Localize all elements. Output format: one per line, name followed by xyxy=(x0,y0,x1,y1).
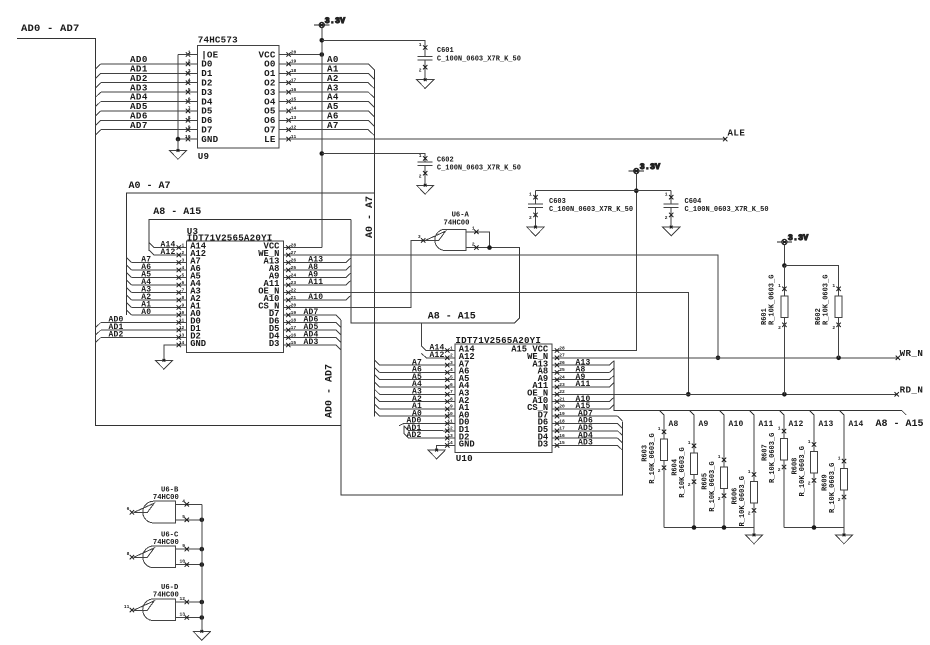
svg-text:3: 3 xyxy=(188,68,191,74)
U6-D output x-mark pin 11 xyxy=(130,608,134,612)
svg-text:A14: A14 xyxy=(849,420,864,429)
svg-text:19: 19 xyxy=(559,411,565,417)
svg-text:R_10K_0603_G: R_10K_0603_G xyxy=(769,433,777,483)
svg-text:74HC573: 74HC573 xyxy=(198,35,238,46)
svg-text:GND: GND xyxy=(201,134,218,145)
wire ALE from U9 LE pin11 to flag xyxy=(279,138,725,140)
U6-C input stubs pins 9,10 xyxy=(175,548,201,550)
svg-text:D3: D3 xyxy=(269,339,280,349)
svg-text:R_10K_0603_G: R_10K_0603_G xyxy=(829,463,837,513)
wires A0-A7 from U9 O0-O7 to A0-A7 bus with net labels xyxy=(279,63,368,65)
junction U6-A tied inputs xyxy=(487,245,492,250)
svg-text:6: 6 xyxy=(450,382,453,388)
svg-text:U6-A: U6-A xyxy=(452,212,470,220)
svg-text:2: 2 xyxy=(472,241,475,247)
U6-A inversion wedge xyxy=(425,231,446,240)
wires AD0-AD7 from bus to U9 D0-D7 with net labels xyxy=(95,64,100,69)
U6-B output x-mark pin 6 xyxy=(130,510,134,514)
svg-text:A10: A10 xyxy=(308,293,323,302)
junction 3.3V rail / C601 branch xyxy=(320,38,325,43)
capacitor C602 branch wire xyxy=(322,154,425,163)
resistor R609 pull-down 10K xyxy=(842,459,846,463)
svg-text:C_100N_0603_X7R_K_50: C_100N_0603_X7R_K_50 xyxy=(437,165,521,173)
svg-text:2: 2 xyxy=(832,325,835,331)
svg-text:2: 2 xyxy=(182,250,185,256)
resistor R602 xyxy=(836,287,840,291)
svg-text:2: 2 xyxy=(778,467,781,473)
svg-text:14: 14 xyxy=(447,440,453,446)
svg-text:15: 15 xyxy=(559,440,565,446)
IC U10 IDT71V2565A20YI SRAM body xyxy=(455,344,552,453)
bus drop to U10 A14/A12 xyxy=(420,323,422,346)
svg-text:1: 1 xyxy=(748,469,751,475)
svg-text:7: 7 xyxy=(182,287,185,293)
svg-text:2: 2 xyxy=(658,468,661,474)
svg-text:A9: A9 xyxy=(699,420,709,429)
svg-text:A11: A11 xyxy=(576,380,591,389)
bus exit and column wire net A14 xyxy=(839,410,844,415)
wires A7..A0 from A0-A7 bus to U10 with net labels xyxy=(375,360,380,365)
svg-text:1: 1 xyxy=(838,456,841,462)
resistor R607 pull-down 10K xyxy=(782,429,786,433)
svg-text:17: 17 xyxy=(291,325,297,331)
U6-B input stubs pins 4,5 xyxy=(175,503,201,505)
svg-text:2: 2 xyxy=(778,325,781,331)
ground symbol pull-down left group xyxy=(745,534,762,544)
U6-A input pin1 stub xyxy=(466,232,490,248)
svg-text:AD3: AD3 xyxy=(304,338,319,347)
svg-text:4: 4 xyxy=(182,265,185,271)
svg-text:9: 9 xyxy=(450,404,453,410)
svg-text:4: 4 xyxy=(182,498,185,504)
svg-text:U9: U9 xyxy=(198,151,209,162)
svg-text:27: 27 xyxy=(291,250,297,256)
svg-text:3: 3 xyxy=(450,360,453,366)
svg-text:8: 8 xyxy=(182,295,185,301)
svg-text:27: 27 xyxy=(559,353,565,359)
svg-text:11: 11 xyxy=(447,418,453,424)
svg-text:21: 21 xyxy=(559,396,565,402)
resistor R603 pull-down 10K xyxy=(662,430,666,434)
svg-text:26: 26 xyxy=(291,257,297,263)
U6-C output x-mark pin 8 xyxy=(130,555,134,559)
svg-text:ALE: ALE xyxy=(728,128,746,139)
svg-text:2: 2 xyxy=(808,481,811,487)
svg-text:C603: C603 xyxy=(549,198,566,206)
svg-text:1: 1 xyxy=(450,345,453,351)
svg-text:AD3: AD3 xyxy=(578,439,593,448)
junction R601 on RD_N xyxy=(782,392,787,397)
3.3V rail to C603 and C604 xyxy=(536,190,672,192)
bus A0-A7: label underline run, right vertical, left vertical drop xyxy=(127,193,375,315)
ground symbol under U3 xyxy=(155,359,172,369)
svg-text:18: 18 xyxy=(559,418,565,424)
svg-text:12: 12 xyxy=(179,596,185,602)
U9 right pin stubs with x-marks and pin numbers 20-11 xyxy=(286,52,290,56)
wire U3 CS_N pin20 up to U6-A output xyxy=(296,240,427,307)
nand gate U6-C 74HC00 (mirrored, output left, inputs grounded) xyxy=(143,546,176,568)
junction U6-C pin10 xyxy=(200,562,205,567)
wire U9 !OE pin1 to GND tie xyxy=(178,54,197,56)
wire U3 GND to ground xyxy=(164,345,174,360)
svg-text:24: 24 xyxy=(559,375,565,381)
svg-text:A7: A7 xyxy=(327,120,339,131)
junction rail A13 xyxy=(812,525,817,530)
ground symbol under C603 xyxy=(527,226,544,236)
svg-text:25: 25 xyxy=(291,265,297,271)
svg-text:AD0 - AD7: AD0 - AD7 xyxy=(21,23,80,35)
capacitor C601 xyxy=(423,45,427,49)
junction WE_N riser on WR_N line xyxy=(716,356,721,361)
svg-text:C604: C604 xyxy=(685,198,702,206)
svg-text:R_10K_0603_G: R_10K_0603_G xyxy=(679,447,687,497)
junction 3.3V right rail xyxy=(782,263,787,268)
wire tied-input chain to ground xyxy=(201,504,203,631)
svg-text:12: 12 xyxy=(179,325,185,331)
svg-text:13: 13 xyxy=(447,433,453,439)
svg-text:R_10K_0603_G: R_10K_0603_G xyxy=(739,476,747,526)
wire !OE-GND tie vertical, junction, ground stem xyxy=(177,55,179,140)
pull-down field right ground rail xyxy=(784,527,844,529)
svg-text:14: 14 xyxy=(179,340,185,346)
svg-text:10: 10 xyxy=(179,310,185,316)
svg-text:U10: U10 xyxy=(456,453,473,464)
bus exit and column wire net A9 xyxy=(689,410,694,415)
svg-text:2: 2 xyxy=(718,496,721,502)
svg-text:28: 28 xyxy=(291,242,297,248)
svg-text:R_10K_0603_G: R_10K_0603_G xyxy=(823,275,831,325)
svg-text:74HC00: 74HC00 xyxy=(153,494,179,502)
svg-text:1: 1 xyxy=(182,242,185,248)
svg-text:A12: A12 xyxy=(789,420,804,429)
bus exit and column wire net A12 xyxy=(779,410,784,415)
bus exit and column wire net A8 xyxy=(659,410,664,415)
capacitor C603 xyxy=(535,191,537,204)
wire U10 A10 to bus with net label xyxy=(565,401,609,403)
svg-text:10: 10 xyxy=(447,411,453,417)
junction OE_N riser on RD_N line xyxy=(686,392,691,397)
resistor R604 pull-down 10K xyxy=(692,444,696,448)
capacitor C601 branch wire xyxy=(322,40,425,56)
capacitor C602 xyxy=(423,156,427,160)
svg-text:4: 4 xyxy=(188,78,191,84)
svg-text:GND: GND xyxy=(190,339,206,349)
svg-text:13: 13 xyxy=(179,332,185,338)
junction rail A9 xyxy=(692,525,697,530)
svg-text:A10: A10 xyxy=(729,420,744,429)
U3 right pin stubs x-marks pin numbers 28-15 xyxy=(284,247,297,249)
bus A8-A15 end marker xyxy=(902,410,907,415)
wire A14 to U3 pin1 with net label xyxy=(154,247,186,249)
svg-text:A8 - A15: A8 - A15 xyxy=(876,419,924,430)
nand gate U6-D 74HC00 (mirrored, output left, inputs grounded) xyxy=(143,599,176,621)
svg-text:1: 1 xyxy=(718,454,721,460)
svg-text:20: 20 xyxy=(291,302,297,308)
resistor R606 pull-down 10K xyxy=(752,472,756,476)
svg-text:20: 20 xyxy=(559,404,565,410)
svg-text:13: 13 xyxy=(179,612,185,618)
power symbol 3.3V right xyxy=(777,234,809,245)
svg-text:6: 6 xyxy=(188,96,191,102)
svg-text:18: 18 xyxy=(291,317,297,323)
wire A12 to U3 pin2 with net label xyxy=(154,254,186,256)
svg-text:16: 16 xyxy=(291,332,297,338)
svg-text:3.3V: 3.3V xyxy=(325,17,345,26)
svg-text:9: 9 xyxy=(182,543,185,549)
U6-A input pin2 stub to A15 riser xyxy=(466,247,520,249)
svg-text:2: 2 xyxy=(419,174,422,180)
svg-text:2: 2 xyxy=(838,497,841,503)
svg-text:7: 7 xyxy=(450,389,453,395)
wires AD7..AD3 from U10 D7-D3 to AD bus with net labels xyxy=(565,415,618,417)
svg-text:8: 8 xyxy=(450,396,453,402)
ground symbol under C604 xyxy=(663,226,680,236)
svg-text:9: 9 xyxy=(182,302,185,308)
svg-text:R_10K_0603_G: R_10K_0603_G xyxy=(649,433,657,483)
U3 left pin stubs x-marks pin numbers 1-14 xyxy=(174,247,186,249)
U6-A output pin3 x-mark and number xyxy=(421,238,425,242)
wire U3 A10 to A8-A15 bus with net label xyxy=(296,299,346,301)
svg-text:A0 - A7: A0 - A7 xyxy=(129,181,171,192)
nand gate U6-B 74HC00 (mirrored, output left, inputs grounded) xyxy=(143,501,176,523)
svg-text:2: 2 xyxy=(188,59,191,65)
wires AD0..AD2 from AD bus to U3 D0-D2 with net labels xyxy=(95,323,100,328)
svg-text:19: 19 xyxy=(291,310,297,316)
bus exit and column wire net A10 xyxy=(719,410,724,415)
nand gate U6-A 74HC00 (mirrored, output left) xyxy=(435,229,466,250)
svg-text:5: 5 xyxy=(182,514,185,520)
svg-text:12: 12 xyxy=(447,426,453,432)
wire U3 OE_N pin22 long run to RD_N line xyxy=(296,293,688,395)
svg-text:23: 23 xyxy=(559,382,565,388)
IC U3 IDT71V2565A20YI SRAM body xyxy=(187,241,284,352)
svg-text:1: 1 xyxy=(832,283,835,289)
junction U6-D pin13 xyxy=(200,615,205,620)
wire U10 GND to ground xyxy=(437,445,443,450)
svg-text:1: 1 xyxy=(472,226,475,232)
svg-text:25: 25 xyxy=(559,367,565,373)
junction U6-D pin12 xyxy=(200,600,205,605)
svg-text:D3: D3 xyxy=(538,440,549,450)
svg-text:1: 1 xyxy=(665,192,668,198)
svg-text:11: 11 xyxy=(179,317,185,323)
ground symbol under U6 gate chain xyxy=(193,630,210,640)
capacitor C604 xyxy=(670,191,672,204)
svg-text:A8 - A15: A8 - A15 xyxy=(428,312,476,323)
svg-text:A0: A0 xyxy=(141,308,151,317)
svg-text:GND: GND xyxy=(459,440,475,450)
bus exit to U3 A14 xyxy=(149,243,154,248)
bus exit and column wire net A11 xyxy=(749,410,754,415)
junction 3.3V mid rail xyxy=(634,188,639,193)
svg-text:3: 3 xyxy=(418,234,421,240)
svg-text:1: 1 xyxy=(808,439,811,445)
bus A8-A15 upper: horizontal, left vertical to U3 A14/A12, right vertical to lower bus xyxy=(149,219,351,251)
svg-text:5: 5 xyxy=(182,272,185,278)
svg-text:6: 6 xyxy=(182,280,185,286)
junction rail A10 xyxy=(722,525,727,530)
U10 left pin stubs x-marks pin numbers 1-14 xyxy=(443,350,455,352)
svg-text:R_10K_0603_G: R_10K_0603_G xyxy=(709,461,717,511)
svg-text:AD7: AD7 xyxy=(130,120,148,131)
svg-text:2: 2 xyxy=(419,68,422,74)
svg-text:C602: C602 xyxy=(437,156,454,164)
wires U10 A13,A8,A9,A11 to right A8-A15 bus with net labels xyxy=(565,364,609,366)
svg-text:22: 22 xyxy=(291,287,297,293)
ground symbol pull-down right group xyxy=(835,534,852,544)
svg-text:8: 8 xyxy=(127,551,130,557)
ground symbol under C602 xyxy=(417,184,434,194)
svg-text:5: 5 xyxy=(188,87,191,93)
U9 left pin stubs with x-marks and pin numbers 1-10 xyxy=(184,63,197,65)
svg-text:C601: C601 xyxy=(437,47,454,55)
bus exit to U3 A12 xyxy=(149,250,154,255)
power symbol 3.3V top xyxy=(314,17,345,28)
wire U10 WE_N pin27 = WR_N net to flag xyxy=(565,357,898,359)
svg-text:6: 6 xyxy=(127,506,130,512)
wires AD0..AD2 from AD bus to U10 D0-D2 with net labels xyxy=(399,423,404,425)
power symbol 3.3V middle xyxy=(629,163,661,174)
svg-text:R_10K_0603_G: R_10K_0603_G xyxy=(769,275,777,325)
svg-text:74HC00: 74HC00 xyxy=(153,539,179,547)
svg-text:WR_N: WR_N xyxy=(900,348,924,359)
svg-text:C_100N_0603_X7R_K_50: C_100N_0603_X7R_K_50 xyxy=(685,206,769,214)
svg-text:2: 2 xyxy=(665,215,668,221)
svg-text:A0 - A7: A0 - A7 xyxy=(365,196,376,238)
wires AD7..AD3 from U3 D7-D3 to AD bus with net labels xyxy=(296,314,336,316)
svg-text:21: 21 xyxy=(291,295,297,301)
wires U3 A13,A8,A9,A11 to A8-A15 bus with net labels xyxy=(296,262,346,264)
junction U6-B pin5 xyxy=(200,518,205,523)
svg-text:AD2: AD2 xyxy=(407,431,422,440)
svg-text:7: 7 xyxy=(188,106,191,112)
ground symbol under C601 xyxy=(417,78,434,88)
svg-text:2: 2 xyxy=(688,482,691,488)
wire U10 OE_N pin22 = RD_N net to flag xyxy=(565,393,897,395)
svg-text:1: 1 xyxy=(688,440,691,446)
ground symbol below U9 xyxy=(169,149,186,159)
svg-text:RD_N: RD_N xyxy=(900,385,924,396)
wires A7..A0 from A0-A7 bus to U3 with net labels xyxy=(127,258,132,263)
svg-text:10: 10 xyxy=(179,559,185,565)
bus exit and column wire net A13 xyxy=(809,410,814,415)
svg-text:74HC00: 74HC00 xyxy=(153,592,179,600)
svg-text:23: 23 xyxy=(291,280,297,286)
svg-text:9: 9 xyxy=(188,125,191,131)
bus A8-A15 right of U10 down to pull-down field xyxy=(614,360,901,410)
svg-text:A8 - A15: A8 - A15 xyxy=(153,207,201,218)
IC U9 74HC573 latch body xyxy=(197,45,279,148)
svg-text:AD0 - AD7: AD0 - AD7 xyxy=(325,364,336,418)
U6-D input stubs pins 12,13 xyxy=(175,601,201,603)
svg-text:1: 1 xyxy=(658,426,661,432)
svg-text:3.3V: 3.3V xyxy=(640,163,660,172)
svg-text:3.3V: 3.3V xyxy=(788,234,808,243)
svg-text:26: 26 xyxy=(559,360,565,366)
svg-text:2: 2 xyxy=(748,511,751,517)
junction 3.3V rail / C602 branch xyxy=(320,151,325,156)
wire 3.3V to R602 xyxy=(784,266,838,297)
svg-text:A8: A8 xyxy=(669,420,679,429)
svg-text:R_10K_0603_G: R_10K_0603_G xyxy=(799,446,807,496)
wire A12 to U10 with net label xyxy=(426,357,443,359)
svg-text:8: 8 xyxy=(188,115,191,121)
svg-text:22: 22 xyxy=(559,389,565,395)
wire A14 to U10 with net label xyxy=(426,350,443,352)
svg-text:1: 1 xyxy=(419,153,422,159)
wire U9 GND pin10 xyxy=(178,138,197,140)
wire U10 CS_N net A15 to bus with net label xyxy=(565,408,609,410)
ground symbol under U10 xyxy=(428,449,445,459)
svg-text:3: 3 xyxy=(182,257,185,263)
svg-text:28: 28 xyxy=(559,345,565,351)
svg-text:LE: LE xyxy=(264,134,276,145)
svg-text:C_100N_0603_X7R_K_50: C_100N_0603_X7R_K_50 xyxy=(549,206,633,214)
svg-text:A11: A11 xyxy=(308,278,323,287)
svg-text:17: 17 xyxy=(559,426,565,432)
resistor R605 pull-down 10K xyxy=(722,458,726,462)
svg-text:24: 24 xyxy=(291,272,297,278)
wire U3 WE_N pin27 long run to WR_N line xyxy=(296,255,718,358)
wire U9 VCC pin20 to 3.3V rail xyxy=(279,54,322,56)
svg-text:5: 5 xyxy=(450,375,453,381)
resistor R601 xyxy=(783,266,785,297)
junction R602 on WR_N xyxy=(836,356,841,361)
svg-text:15: 15 xyxy=(291,340,297,346)
3.3V vertical rail down to U3 VCC xyxy=(321,40,323,247)
svg-text:1: 1 xyxy=(529,192,532,198)
svg-text:C_100N_0603_X7R_K_50: C_100N_0603_X7R_K_50 xyxy=(437,55,521,63)
svg-text:1: 1 xyxy=(778,426,781,432)
svg-text:A12: A12 xyxy=(430,351,445,360)
svg-text:74HC00: 74HC00 xyxy=(444,219,470,227)
svg-text:16: 16 xyxy=(559,433,565,439)
bus AD0-AD7 (main snake: top-left down left side, across bottom of U3/U10, up right of U10) xyxy=(17,39,341,426)
svg-text:1: 1 xyxy=(778,283,781,289)
svg-text:1: 1 xyxy=(419,42,422,48)
resistor R608 pull-down 10K xyxy=(812,442,816,446)
svg-text:A12: A12 xyxy=(161,248,176,257)
svg-text:2: 2 xyxy=(529,215,532,221)
svg-text:A13: A13 xyxy=(819,420,834,429)
svg-text:AD2: AD2 xyxy=(109,331,124,340)
svg-text:A11: A11 xyxy=(759,420,774,429)
pull-down field left ground rail xyxy=(664,527,754,529)
wire U3 VCC pin28 to 3.3V rail xyxy=(296,247,322,249)
svg-text:4: 4 xyxy=(450,367,453,373)
U10 right pin stubs x-marks pin numbers 28-15 xyxy=(552,350,565,352)
svg-text:2: 2 xyxy=(450,353,453,359)
svg-text:11: 11 xyxy=(124,604,130,610)
wire U10 VCC pin28 to 3.3V riser xyxy=(565,191,636,351)
junction U6-C pin9 xyxy=(200,547,205,552)
